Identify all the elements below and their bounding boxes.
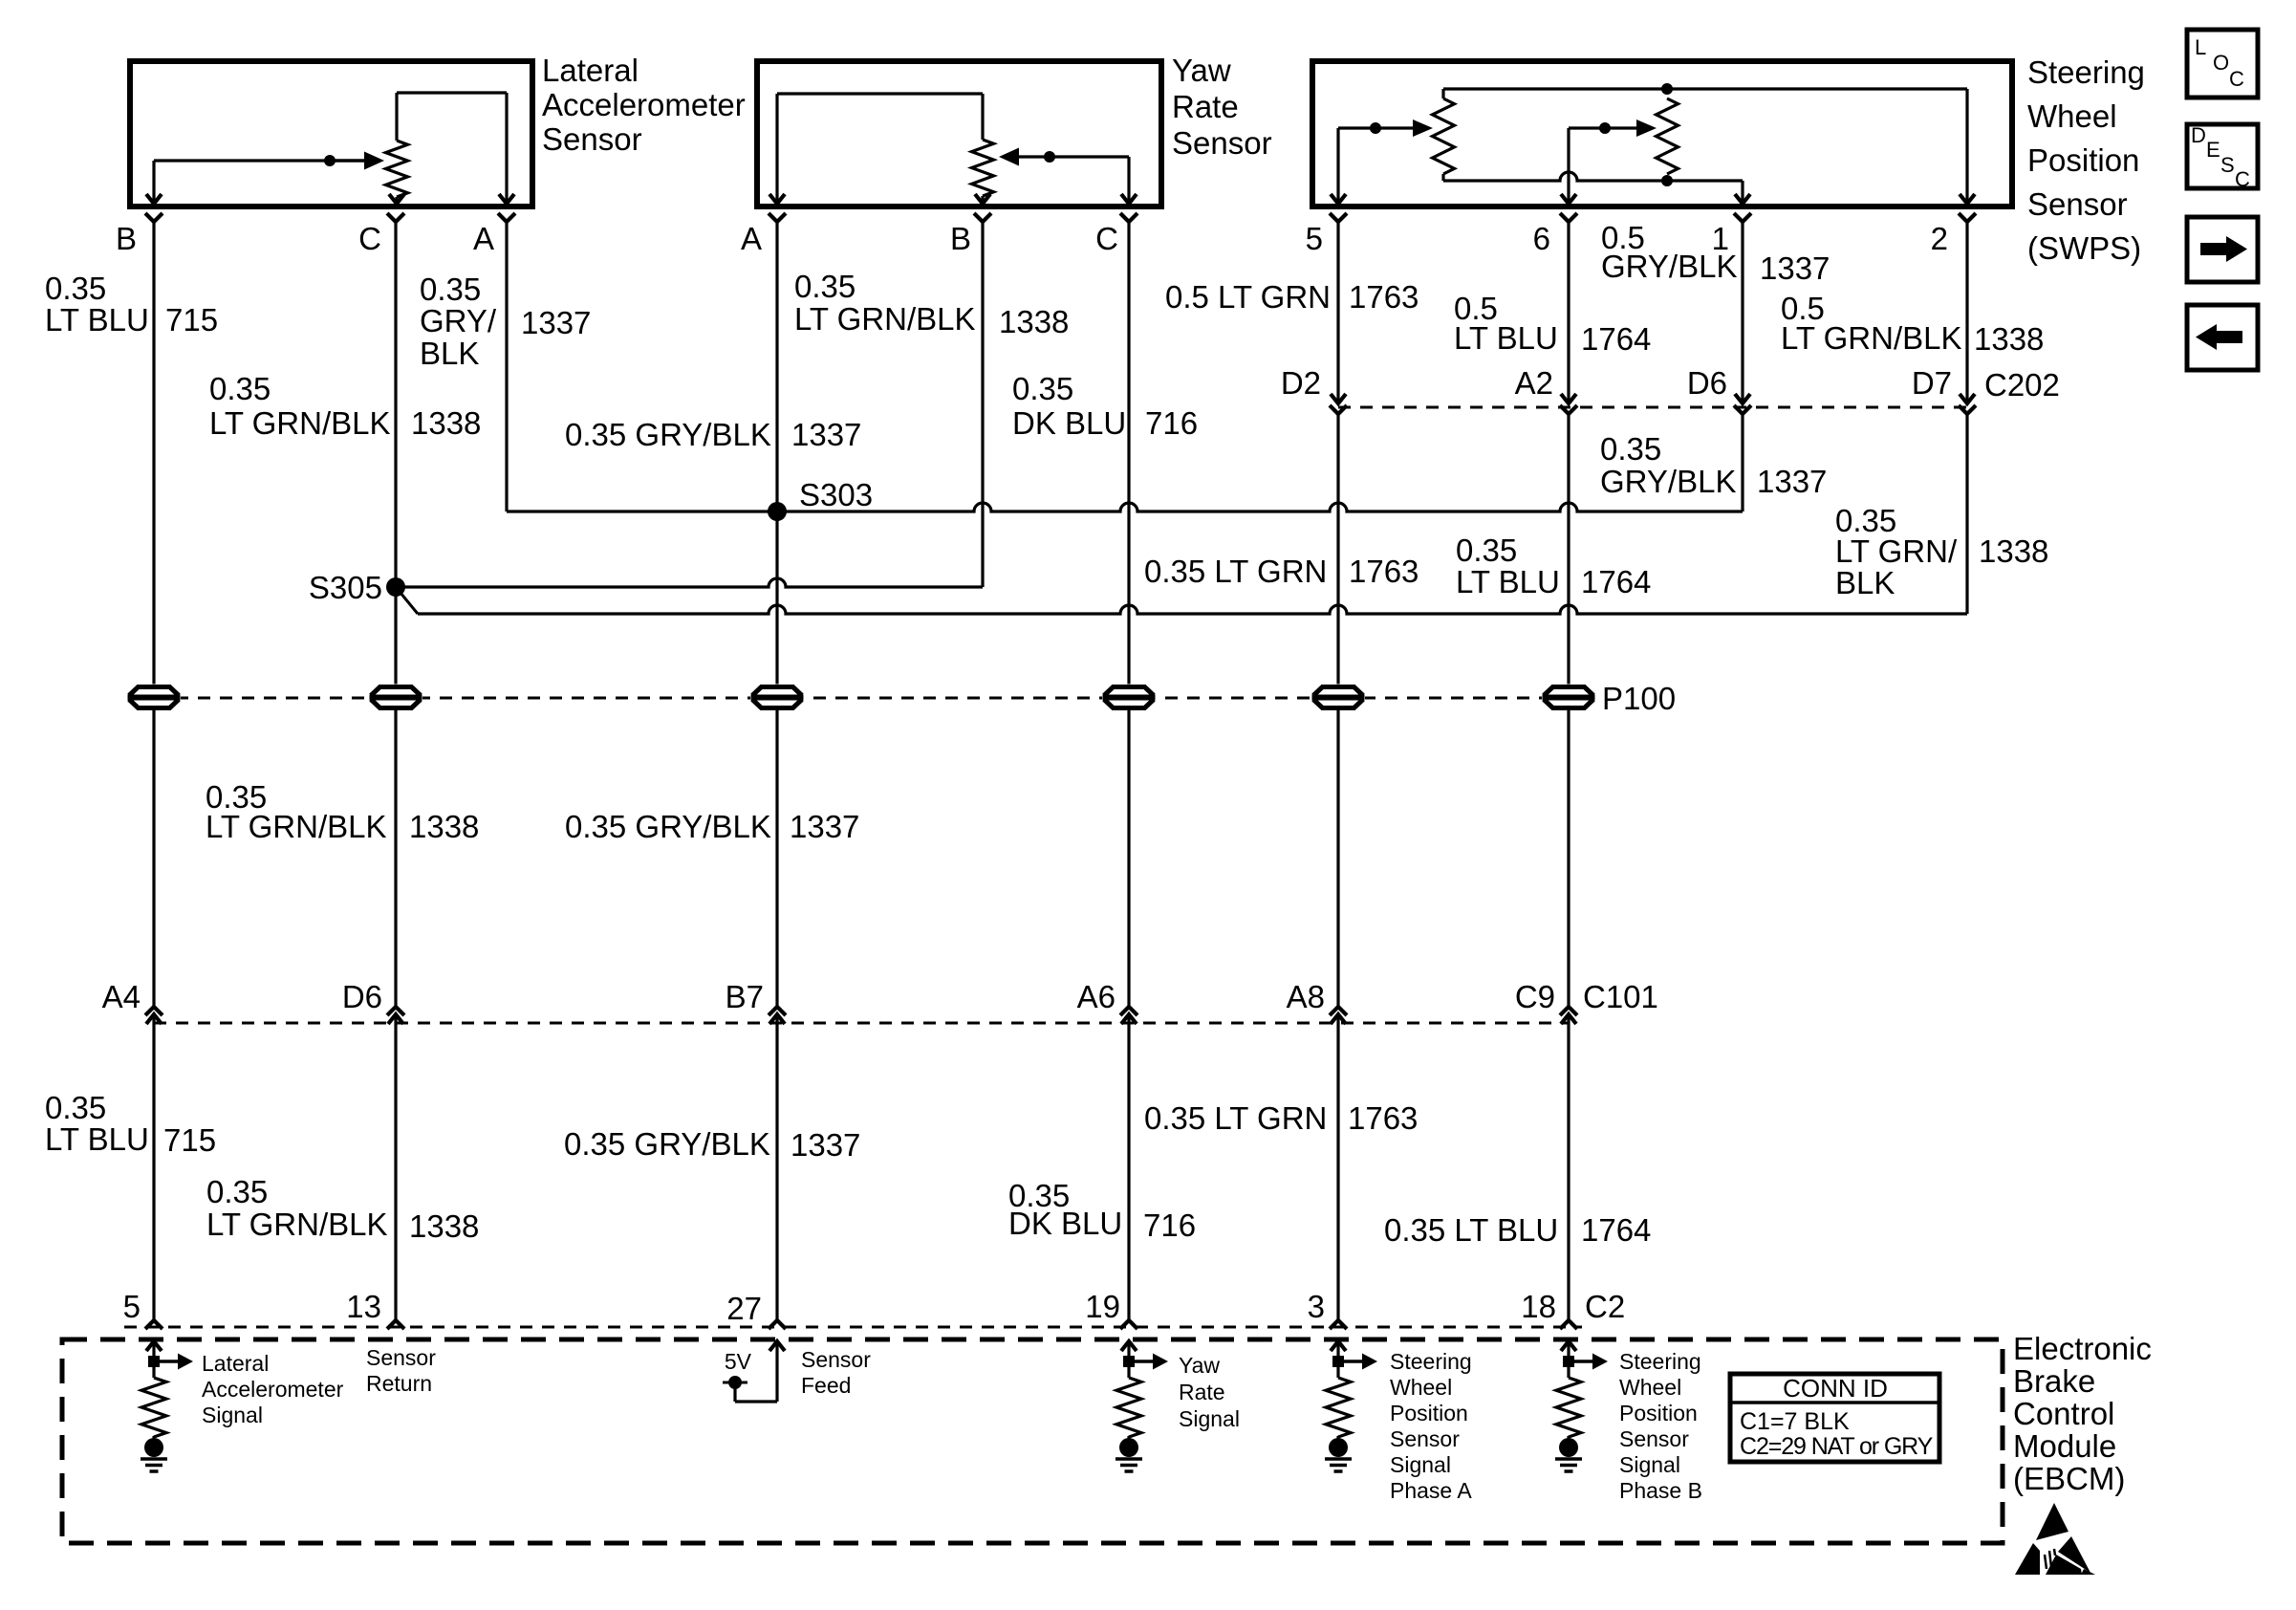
svg-text:1763: 1763 bbox=[1349, 279, 1419, 315]
EBCM 5V label bbox=[725, 1349, 752, 1374]
svg-text:Phase A: Phase A bbox=[1390, 1478, 1472, 1503]
svg-text:Position: Position bbox=[1619, 1401, 1698, 1425]
C202 D6 arrowhead bbox=[1735, 394, 1750, 403]
yaw pin C arrowhead bbox=[1121, 194, 1137, 204]
svg-text:0.35: 0.35 bbox=[420, 272, 481, 307]
label 0.35 LT GRN/BLK 1338 col10 mid bbox=[1835, 503, 2048, 600]
svg-text:0.35: 0.35 bbox=[45, 271, 106, 306]
Yaw Rate Sensor box bbox=[757, 61, 1161, 207]
label 0.35 GRY/BLK 1337 col3 bbox=[420, 272, 591, 371]
swps wiper2 wire bbox=[1569, 128, 1636, 204]
svg-text:Wheel: Wheel bbox=[2027, 98, 2117, 134]
pin B fork bbox=[145, 213, 162, 222]
C101 A6 arrowhead bbox=[1121, 1014, 1137, 1024]
pin A arrowhead bbox=[499, 194, 514, 204]
svg-text:L: L bbox=[2195, 35, 2206, 59]
S303 splice line bbox=[507, 503, 1743, 511]
swps pin labels bbox=[1306, 221, 1948, 256]
svg-text:1764: 1764 bbox=[1581, 1212, 1651, 1248]
EBCM pin 27 fork bbox=[769, 1320, 786, 1329]
C101 B7 arrowhead bbox=[769, 1014, 785, 1024]
svg-text:(SWPS): (SWPS) bbox=[2027, 230, 2141, 266]
yaw potentiometer R bbox=[972, 140, 994, 204]
label 0.35 LT GRN/BLK 1338 col2 lower bbox=[206, 779, 479, 844]
svg-text:0.35: 0.35 bbox=[1600, 431, 1661, 467]
svg-text:1338: 1338 bbox=[409, 1208, 479, 1244]
wire 1337 yaw A bbox=[775, 222, 778, 685]
P100 pass-through connector col8 bbox=[1542, 685, 1595, 711]
C202 D6 fork bbox=[1734, 405, 1751, 414]
wire 1337 P100-C101 bbox=[775, 710, 778, 1007]
label 0.35 LT GRN/BLK 1338 col2 bbox=[209, 371, 481, 441]
wire 1764 swps6 bbox=[1567, 222, 1570, 403]
C101 A4 arrowhead bbox=[146, 1014, 162, 1024]
wire 1337 swps1 bbox=[1741, 222, 1744, 403]
EBCM yaw rate signal input bbox=[1116, 1341, 1168, 1471]
C202 dashed line bbox=[1338, 406, 1967, 409]
Steering Wheel Position Sensor label bbox=[2027, 54, 2145, 266]
svg-text:0.5 LT GRN: 0.5 LT GRN bbox=[1165, 279, 1331, 315]
swps wiper2 dot bbox=[1599, 122, 1611, 134]
svg-text:O: O bbox=[2213, 51, 2229, 75]
svg-text:S305: S305 bbox=[309, 570, 382, 605]
P100 name bbox=[1602, 681, 1676, 716]
svg-text:C2=29 NAT or GRY: C2=29 NAT or GRY bbox=[1740, 1433, 1934, 1460]
wire 1338 yaw B bbox=[981, 222, 984, 587]
svg-text:27: 27 bbox=[726, 1291, 762, 1326]
EBCM swps phase A label bbox=[1390, 1349, 1472, 1503]
swps potentiometer R2 bbox=[1657, 98, 1679, 174]
wire 1763 C101-EBCM bbox=[1336, 1014, 1339, 1320]
svg-text:Sensor: Sensor bbox=[1390, 1426, 1460, 1451]
EBCM pin 18 fork bbox=[1560, 1320, 1577, 1329]
svg-text:C: C bbox=[358, 221, 381, 256]
svg-text:715: 715 bbox=[165, 302, 218, 337]
svg-text:Signal: Signal bbox=[1619, 1452, 1680, 1477]
label 0.5 LT GRN 1763 col7 bbox=[1165, 279, 1419, 315]
svg-text:Yaw: Yaw bbox=[1172, 53, 1231, 88]
EBCM yaw rate signal label bbox=[1179, 1353, 1240, 1431]
EBCM lateral accel signal label bbox=[202, 1351, 344, 1427]
svg-text:Sensor: Sensor bbox=[1172, 125, 1272, 161]
svg-text:D6: D6 bbox=[1687, 365, 1727, 401]
svg-text:GRY/BLK: GRY/BLK bbox=[1600, 464, 1736, 499]
svg-text:LT BLU: LT BLU bbox=[45, 1121, 149, 1157]
svg-text:Sensor: Sensor bbox=[801, 1347, 871, 1372]
wire 716 C101-EBCM bbox=[1127, 1014, 1130, 1320]
label 0.35 LT GRN/BLK 1338 col2 bottom bbox=[206, 1174, 479, 1244]
svg-text:Rate: Rate bbox=[1179, 1380, 1225, 1404]
pin C fork bbox=[387, 213, 404, 222]
wire 1337 below C202 bbox=[1741, 414, 1744, 511]
wire 1763 below C202 bbox=[1336, 414, 1339, 685]
swps wiper1 arrow bbox=[1413, 120, 1433, 137]
yaw pin labels bbox=[741, 221, 1118, 256]
svg-text:1337: 1337 bbox=[521, 305, 591, 340]
C101 pin labels bbox=[102, 979, 1555, 1014]
wire 1337 lateral A bbox=[505, 222, 508, 511]
svg-text:Position: Position bbox=[1390, 1401, 1468, 1425]
S303 junction dot bbox=[768, 502, 787, 521]
C101 C9 arrowhead bbox=[1561, 1014, 1576, 1024]
svg-text:E: E bbox=[2206, 138, 2220, 162]
pin C arrowhead bbox=[389, 194, 404, 204]
EBCM sensor return label bbox=[366, 1345, 436, 1396]
C202 D2 fork bbox=[1330, 405, 1347, 414]
wire 1338 C101-EBCM bbox=[394, 1014, 397, 1320]
label 0.35 LT BLU 1764 bottom bbox=[1384, 1212, 1651, 1248]
S303 label bbox=[799, 477, 873, 512]
label 0.35 DK BLU 716 bottom bbox=[1008, 1178, 1196, 1243]
LOC legend box bbox=[2187, 30, 2258, 98]
svg-text:Phase B: Phase B bbox=[1619, 1478, 1702, 1503]
svg-text:P100: P100 bbox=[1602, 681, 1676, 716]
EBCM module dashed box bbox=[62, 1339, 2003, 1543]
svg-text:1764: 1764 bbox=[1581, 321, 1651, 357]
svg-text:0.35 GRY/BLK: 0.35 GRY/BLK bbox=[564, 1126, 770, 1162]
S305 lower splice line bbox=[396, 587, 1967, 614]
C101 D6 arrowhead bbox=[388, 1014, 403, 1024]
C101 name bbox=[1583, 979, 1658, 1014]
swps pin6 arrowhead bbox=[1561, 194, 1576, 204]
label 0.5 LT GRN/BLK 1338 col10 bbox=[1781, 291, 2044, 357]
lateral accel inner bracket wire bbox=[397, 93, 507, 204]
yaw wiper wire bbox=[999, 148, 1129, 205]
svg-text:A: A bbox=[741, 221, 762, 256]
svg-text:A2: A2 bbox=[1515, 365, 1553, 401]
C202 A2 fork bbox=[1560, 405, 1577, 414]
EBCM name label bbox=[2013, 1331, 2152, 1496]
label 0.35 DK BLU 716 col6 bbox=[1012, 371, 1198, 441]
svg-text:Sensor: Sensor bbox=[366, 1345, 436, 1370]
svg-text:0.35 LT GRN: 0.35 LT GRN bbox=[1144, 1100, 1327, 1136]
wiper arrow bbox=[330, 152, 384, 170]
S305 junction dot bbox=[386, 577, 405, 597]
svg-text:6: 6 bbox=[1533, 221, 1550, 256]
svg-text:LT BLU: LT BLU bbox=[1454, 320, 1558, 356]
svg-text:1337: 1337 bbox=[791, 1127, 860, 1163]
swps wiper2 arrow bbox=[1636, 120, 1657, 137]
svg-text:1764: 1764 bbox=[1581, 564, 1651, 599]
svg-text:D7: D7 bbox=[1912, 365, 1952, 401]
label 0.5 GRY/BLK 1337 col9 bbox=[1601, 220, 1830, 286]
EBCM pin 19 fork bbox=[1120, 1320, 1137, 1329]
svg-text:5: 5 bbox=[123, 1289, 141, 1324]
yaw wiper dot bbox=[1044, 151, 1055, 163]
svg-text:1337: 1337 bbox=[1760, 250, 1830, 286]
swps pin5 arrowhead bbox=[1331, 194, 1346, 204]
svg-text:S: S bbox=[2220, 153, 2235, 177]
svg-text:B: B bbox=[116, 221, 137, 256]
svg-text:Accelerometer: Accelerometer bbox=[542, 87, 746, 122]
label 0.35 LT GRN/BLK 1338 col5 bbox=[794, 269, 1069, 339]
svg-text:Electronic: Electronic bbox=[2013, 1331, 2152, 1366]
svg-text:CONN ID: CONN ID bbox=[1783, 1374, 1888, 1403]
EBCM C2 name bbox=[1585, 1289, 1625, 1324]
svg-text:A: A bbox=[473, 221, 494, 256]
swps pin2 arrowhead bbox=[1960, 194, 1975, 204]
wire 716 P100-C101 bbox=[1127, 710, 1130, 1007]
svg-text:716: 716 bbox=[1143, 1207, 1196, 1243]
label 0.35 LT BLU 715 top bbox=[45, 271, 218, 337]
svg-text:LT GRN/BLK: LT GRN/BLK bbox=[206, 809, 387, 844]
svg-text:GRY/BLK: GRY/BLK bbox=[1601, 249, 1737, 284]
C202 pin labels bbox=[1281, 365, 1952, 401]
EBCM sensor feed label bbox=[801, 1347, 871, 1398]
svg-text:13: 13 bbox=[346, 1289, 381, 1324]
swps pin6 fork bbox=[1560, 213, 1577, 222]
svg-text:Lateral: Lateral bbox=[542, 53, 639, 88]
C101 A8 arrowhead bbox=[1331, 1014, 1346, 1024]
svg-text:LT GRN/: LT GRN/ bbox=[1835, 533, 1958, 569]
DESC legend box bbox=[2187, 123, 2258, 191]
svg-text:0.35 LT GRN: 0.35 LT GRN bbox=[1144, 554, 1327, 589]
svg-text:1338: 1338 bbox=[1974, 321, 2044, 357]
svg-text:A8: A8 bbox=[1287, 979, 1325, 1014]
svg-text:Control: Control bbox=[2013, 1396, 2114, 1431]
P100 pass-through connector col7 bbox=[1311, 685, 1365, 711]
svg-text:0.35: 0.35 bbox=[209, 371, 271, 406]
svg-text:Module: Module bbox=[2013, 1428, 2116, 1464]
C202 A2 arrowhead bbox=[1561, 394, 1576, 403]
svg-text:0.35: 0.35 bbox=[206, 1174, 268, 1209]
EBCM pin labels bbox=[123, 1289, 1556, 1326]
label 0.5 LT BLU 1764 col8 bbox=[1454, 291, 1651, 357]
EBCM swps phase B input bbox=[1555, 1341, 1608, 1471]
svg-text:Sensor: Sensor bbox=[1619, 1426, 1689, 1451]
svg-text:GRY/: GRY/ bbox=[420, 303, 497, 338]
EBCM pin 3 fork bbox=[1330, 1320, 1347, 1329]
svg-text:LT BLU: LT BLU bbox=[45, 302, 149, 337]
C202 D7 fork bbox=[1959, 405, 1976, 414]
svg-text:C: C bbox=[1095, 221, 1118, 256]
svg-text:Wheel: Wheel bbox=[1390, 1375, 1452, 1400]
swps pin2 fork bbox=[1959, 213, 1976, 222]
svg-text:BLK: BLK bbox=[1835, 565, 1895, 600]
lateral accel wiper wire bbox=[154, 161, 330, 204]
svg-text:Sensor: Sensor bbox=[2027, 186, 2128, 222]
svg-text:2: 2 bbox=[1931, 221, 1948, 256]
svg-text:1337: 1337 bbox=[1757, 464, 1827, 499]
swps pin1 arrowhead bbox=[1735, 194, 1750, 204]
C101 B7 fork bbox=[769, 1007, 786, 1015]
svg-text:0.35 GRY/BLK: 0.35 GRY/BLK bbox=[565, 417, 771, 452]
wire 1763 P100-C101 bbox=[1336, 710, 1339, 1007]
Steering Wheel Position Sensor box bbox=[1312, 61, 2012, 207]
svg-text:LT BLU: LT BLU bbox=[1456, 564, 1560, 599]
C101 dashed line bbox=[154, 1022, 1569, 1025]
pin B arrowhead bbox=[146, 194, 162, 204]
svg-text:A6: A6 bbox=[1077, 979, 1116, 1014]
swps top dot bbox=[1661, 83, 1673, 95]
C202 name bbox=[1984, 367, 2060, 402]
svg-text:C1=7 BLK: C1=7 BLK bbox=[1740, 1408, 1850, 1435]
svg-text:Return: Return bbox=[366, 1371, 432, 1396]
P100 pass-through connector col2 bbox=[369, 685, 422, 711]
svg-text:DK BLU: DK BLU bbox=[1008, 1206, 1122, 1241]
C101 A6 fork bbox=[1120, 1007, 1137, 1015]
svg-text:19: 19 bbox=[1085, 1289, 1120, 1324]
EBCM connector dashed line bbox=[124, 1326, 1582, 1329]
C101 A4 fork bbox=[145, 1007, 162, 1015]
left arrow legend box bbox=[2187, 305, 2258, 370]
svg-text:5: 5 bbox=[1306, 221, 1323, 256]
svg-text:Signal: Signal bbox=[1390, 1452, 1451, 1477]
swps bottom wire bbox=[1443, 172, 1743, 204]
wire 1338 swps2 bbox=[1965, 222, 1968, 403]
label 0.35 LT GRN 1763 col7 mid bbox=[1144, 554, 1419, 589]
wire 715 C101-EBCM bbox=[152, 1014, 155, 1320]
EBCM 5V sensor feed bbox=[723, 1341, 785, 1402]
svg-text:Lateral: Lateral bbox=[202, 1351, 269, 1376]
swps wiper1 dot bbox=[1370, 122, 1381, 134]
svg-text:LT GRN/BLK: LT GRN/BLK bbox=[206, 1207, 388, 1242]
wire 1764 P100-C101 bbox=[1567, 710, 1570, 1007]
svg-text:Rate: Rate bbox=[1172, 89, 1239, 124]
label 0.35 GRY/BLK 1337 col4 mid bbox=[565, 417, 861, 452]
yaw bracket wire bbox=[777, 94, 983, 204]
svg-text:LT GRN/BLK: LT GRN/BLK bbox=[1781, 320, 1962, 356]
svg-text:Position: Position bbox=[2027, 142, 2139, 178]
C101 C9 fork bbox=[1560, 1007, 1577, 1015]
svg-text:716: 716 bbox=[1145, 405, 1198, 441]
EBCM swps phase B label bbox=[1619, 1349, 1702, 1503]
swps pin5 fork bbox=[1330, 213, 1347, 222]
wiper junction dot bbox=[324, 155, 336, 166]
svg-text:Steering: Steering bbox=[1619, 1349, 1701, 1374]
yaw pin B fork bbox=[974, 213, 991, 222]
P100 pass-through connector col1 bbox=[127, 685, 181, 711]
P100 dashed line bbox=[154, 697, 1569, 700]
svg-text:D2: D2 bbox=[1281, 365, 1321, 401]
svg-text:Brake: Brake bbox=[2013, 1363, 2095, 1399]
lateral accel potentiometer R bbox=[386, 93, 408, 204]
svg-text:LT GRN/BLK: LT GRN/BLK bbox=[794, 301, 976, 337]
P100 pass-through connector col4 bbox=[750, 685, 804, 711]
C101 A8 fork bbox=[1330, 1007, 1347, 1015]
right arrow legend box bbox=[2187, 217, 2258, 282]
svg-text:S303: S303 bbox=[799, 477, 873, 512]
svg-text:1337: 1337 bbox=[790, 809, 859, 844]
svg-text:(EBCM): (EBCM) bbox=[2013, 1461, 2125, 1496]
svg-text:0.35: 0.35 bbox=[794, 269, 856, 304]
label 0.35 LT BLU 1764 col8 mid bbox=[1456, 533, 1651, 599]
pin labels B C A bbox=[116, 221, 494, 256]
swps pin1 fork bbox=[1734, 213, 1751, 222]
C202 D7 arrowhead bbox=[1960, 394, 1975, 403]
label 0.35 GRY/BLK 1337 col9 mid bbox=[1600, 431, 1827, 499]
svg-text:C: C bbox=[2229, 67, 2244, 91]
svg-text:Steering: Steering bbox=[2027, 54, 2145, 90]
swps wiper1 wire bbox=[1338, 128, 1413, 204]
svg-text:Sensor: Sensor bbox=[542, 121, 642, 157]
swps potentiometer R1 bbox=[1433, 89, 1455, 181]
Lateral Accelerometer Sensor box bbox=[130, 61, 532, 207]
yaw pin A arrowhead bbox=[769, 194, 785, 204]
svg-text:BLK: BLK bbox=[420, 336, 479, 371]
wire 1763 swps5 bbox=[1336, 222, 1339, 403]
wire 715 P100-C101 bbox=[152, 710, 155, 1007]
EBCM swps phase A input bbox=[1325, 1341, 1377, 1471]
svg-text:D: D bbox=[2191, 123, 2206, 147]
yaw pin C fork bbox=[1120, 213, 1137, 222]
wire 1338 P100-C101 bbox=[394, 710, 397, 1007]
svg-text:0.35: 0.35 bbox=[1456, 533, 1517, 568]
swps bottom dot bbox=[1661, 175, 1673, 186]
svg-text:1338: 1338 bbox=[1979, 533, 2048, 569]
S305 upper splice line bbox=[396, 578, 983, 587]
svg-text:18: 18 bbox=[1521, 1289, 1556, 1324]
svg-text:715: 715 bbox=[163, 1122, 216, 1158]
svg-text:1338: 1338 bbox=[999, 304, 1069, 339]
svg-text:Wheel: Wheel bbox=[1619, 1375, 1681, 1400]
label 0.35 LT GRN 1763 bottom bbox=[1144, 1100, 1418, 1136]
label 0.35 GRY/BLK 1337 col4 lower bbox=[565, 809, 859, 844]
svg-text:0.35: 0.35 bbox=[45, 1090, 106, 1125]
svg-text:1338: 1338 bbox=[409, 809, 479, 844]
wire 715 upper bbox=[152, 222, 155, 685]
svg-text:1337: 1337 bbox=[791, 417, 861, 452]
Yaw Rate Sensor label bbox=[1172, 53, 1272, 161]
svg-text:Accelerometer: Accelerometer bbox=[202, 1377, 344, 1402]
svg-text:Steering: Steering bbox=[1390, 1349, 1472, 1374]
CONN ID box bbox=[1730, 1374, 1939, 1462]
svg-text:1763: 1763 bbox=[1348, 1100, 1418, 1136]
swps top wire bbox=[1443, 89, 1967, 204]
EBCM pin 13 fork bbox=[387, 1320, 404, 1329]
svg-text:C101: C101 bbox=[1583, 979, 1658, 1014]
P100 pass-through connector col6 bbox=[1102, 685, 1156, 711]
svg-text:Yaw: Yaw bbox=[1179, 1353, 1220, 1378]
EBCM lateral accel signal input bbox=[141, 1341, 193, 1471]
svg-text:DK BLU: DK BLU bbox=[1012, 405, 1126, 441]
wire 1338 below C202 bbox=[1965, 414, 1968, 614]
svg-text:C2: C2 bbox=[1585, 1289, 1625, 1324]
ESD sensitivity symbol bbox=[2015, 1503, 2095, 1575]
svg-text:C9: C9 bbox=[1515, 979, 1555, 1014]
wire 1337 C101-EBCM bbox=[775, 1014, 778, 1320]
svg-text:C: C bbox=[2235, 167, 2250, 191]
svg-text:1763: 1763 bbox=[1349, 554, 1419, 589]
S305 label bbox=[309, 570, 382, 605]
label 0.35 GRY/BLK 1337 bottom bbox=[564, 1126, 860, 1163]
svg-text:5V: 5V bbox=[725, 1349, 752, 1374]
svg-text:D6: D6 bbox=[342, 979, 382, 1014]
C202 D2 arrowhead bbox=[1331, 394, 1346, 403]
yaw pin A fork bbox=[769, 213, 786, 222]
svg-text:B7: B7 bbox=[726, 979, 764, 1014]
svg-text:B: B bbox=[950, 221, 971, 256]
wire 1764 C101-EBCM bbox=[1567, 1014, 1570, 1320]
svg-text:LT GRN/BLK: LT GRN/BLK bbox=[209, 405, 391, 441]
yaw pin B arrowhead bbox=[975, 194, 990, 204]
svg-text:A4: A4 bbox=[102, 979, 141, 1014]
svg-text:3: 3 bbox=[1308, 1289, 1325, 1324]
svg-text:Signal: Signal bbox=[202, 1403, 263, 1427]
svg-text:Signal: Signal bbox=[1179, 1406, 1240, 1431]
svg-text:1338: 1338 bbox=[411, 405, 481, 441]
svg-text:C202: C202 bbox=[1984, 367, 2060, 402]
pin A fork bbox=[498, 213, 515, 222]
wire 716 yaw C bbox=[1127, 222, 1130, 685]
EBCM pin 5 fork bbox=[145, 1320, 162, 1329]
svg-text:0.35 GRY/BLK: 0.35 GRY/BLK bbox=[565, 809, 771, 844]
svg-text:Feed: Feed bbox=[801, 1373, 851, 1398]
wire 1338 upper bbox=[394, 222, 397, 685]
C101 D6 fork bbox=[387, 1007, 404, 1015]
wire 1764 below C202 bbox=[1567, 414, 1570, 685]
svg-text:0.35: 0.35 bbox=[1012, 371, 1073, 406]
